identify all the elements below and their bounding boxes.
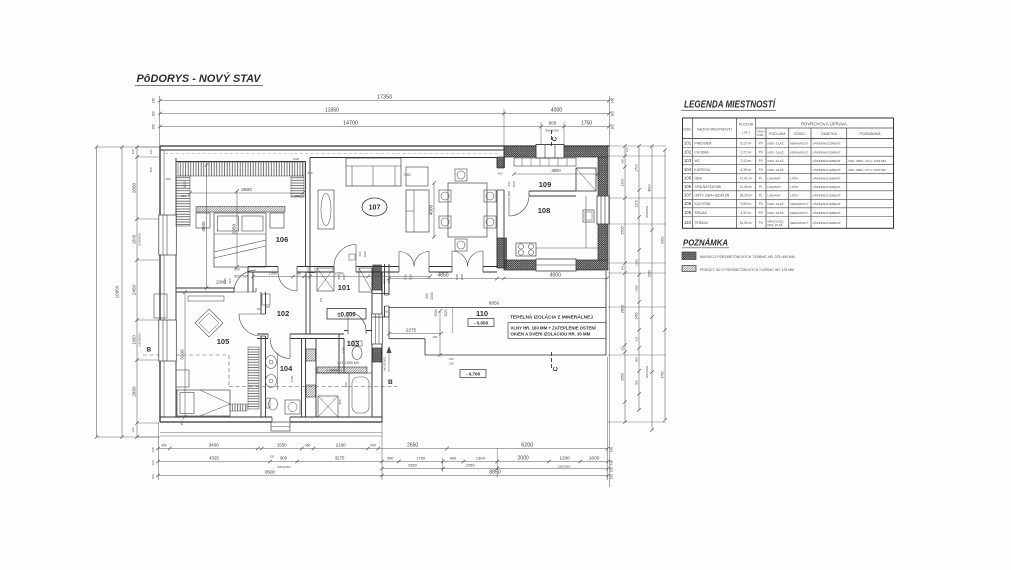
svg-text:34,00 m²: 34,00 m²: [740, 221, 753, 225]
svg-text:OBÝV. IZBA+JEDÁLEŇ: OBÝV. IZBA+JEDÁLEŇ: [695, 194, 730, 198]
svg-text:1200: 1200: [559, 456, 570, 461]
svg-text:300: 300: [498, 172, 503, 176]
svg-text:POZNÁMKA: POZNÁMKA: [683, 238, 728, 248]
svg-text:KERAMICKÝ: KERAMICKÝ: [790, 221, 808, 225]
svg-text:KER. OBKL. DO V. 1250 MM: KER. OBKL. DO V. 1250 MM: [849, 159, 887, 163]
svg-text:KER. DLAŽ.: KER. DLAŽ.: [768, 141, 785, 146]
svg-text:WC: WC: [695, 159, 701, 163]
svg-text:17350: 17350: [377, 95, 392, 101]
svg-text:450: 450: [161, 444, 167, 448]
svg-text:3275: 3275: [335, 456, 345, 461]
svg-text:150: 150: [270, 455, 275, 459]
svg-text:1600: 1600: [589, 456, 600, 462]
svg-text:KERAMICKÝ: KERAMICKÝ: [790, 202, 808, 206]
svg-text:160: 160: [610, 474, 614, 480]
svg-text:2350: 2350: [408, 463, 418, 468]
svg-text:1950: 1950: [620, 373, 624, 381]
svg-text:2500: 2500: [620, 226, 624, 234]
svg-text:- 0,700: - 0,700: [466, 372, 481, 377]
svg-text:10950: 10950: [114, 285, 119, 298]
svg-text:6350: 6350: [660, 236, 664, 244]
svg-text:VÁPENNOCEMENT.: VÁPENNOCEMENT.: [813, 142, 842, 146]
svg-text:450: 450: [149, 167, 153, 172]
svg-text:PôDORYS - NOVÝ STAV: PôDORYS - NOVÝ STAV: [137, 72, 262, 85]
svg-text:105: 105: [684, 176, 692, 181]
svg-text:IZBA: IZBA: [695, 177, 703, 181]
svg-text:160: 160: [151, 474, 155, 479]
svg-text:PODL.: PODL.: [757, 134, 765, 137]
svg-text:4000: 4000: [550, 273, 561, 279]
svg-text:V.O. 1500 MV: V.O. 1500 MV: [337, 361, 360, 365]
svg-text:13350: 13350: [325, 108, 339, 114]
svg-text:1200: 1200: [404, 273, 408, 280]
svg-text:500: 500: [234, 268, 240, 272]
svg-text:900: 900: [280, 456, 288, 461]
svg-text:1970: 1970: [512, 180, 516, 187]
svg-text:600: 600: [507, 181, 511, 186]
svg-text:1200: 1200: [620, 179, 624, 187]
svg-text:( m² ): ( m² ): [742, 131, 750, 135]
svg-text:KER. OBKL. DO V. 2200 MM: KER. OBKL. DO V. 2200 MM: [849, 168, 887, 172]
svg-text:950: 950: [338, 399, 342, 404]
svg-text:2650: 2650: [407, 443, 418, 449]
svg-text:2200: 2200: [430, 292, 434, 299]
svg-text:/900/1350/: /900/1350/: [645, 366, 649, 379]
svg-text:KÚPEĽŇA: KÚPEĽŇA: [695, 168, 711, 172]
svg-text:450: 450: [296, 272, 301, 276]
svg-text:VÁPENNOCEMENT.: VÁPENNOCEMENT.: [813, 177, 842, 181]
svg-text:3150: 3150: [290, 375, 294, 382]
svg-text:/900/1350/: /900/1350/: [545, 129, 559, 133]
svg-text:KERAMICKÝ: KERAMICKÝ: [790, 142, 808, 146]
svg-text:2200: 2200: [409, 273, 413, 280]
svg-text:POZNÁMKA: POZNÁMKA: [859, 132, 881, 136]
svg-text:900: 900: [425, 293, 429, 299]
svg-text:PLOCHA: PLOCHA: [739, 123, 754, 127]
svg-text:2200: 2200: [460, 273, 464, 280]
svg-text:±0,000: ±0,000: [337, 312, 356, 318]
svg-text:4000: 4000: [428, 204, 433, 215]
svg-text:3500: 3500: [241, 187, 252, 193]
svg-text:8500: 8500: [265, 470, 275, 475]
svg-text:/1350/900/: /1350/900/: [645, 206, 649, 219]
svg-text:2200: 2200: [330, 369, 338, 373]
svg-text:4850: 4850: [437, 273, 448, 279]
svg-text:ŠPAJZA: ŠPAJZA: [695, 210, 708, 215]
svg-text:PL: PL: [759, 194, 763, 198]
svg-text:2000: 2000: [518, 456, 529, 462]
svg-text:KERAMICKÝ: KERAMICKÝ: [790, 211, 808, 215]
svg-text:7050: 7050: [403, 173, 410, 177]
svg-text:160: 160: [152, 111, 156, 117]
svg-text:- 0,050: - 0,050: [474, 321, 489, 326]
svg-text:160: 160: [611, 98, 615, 104]
svg-text:300: 300: [620, 346, 624, 351]
svg-text:1750: 1750: [581, 121, 592, 127]
svg-text:2800: 2800: [620, 305, 624, 313]
svg-text:104: 104: [280, 364, 293, 373]
svg-text:MURIVO Z PÓROBETÓNOVÝCH TVÁRNI: MURIVO Z PÓROBETÓNOVÝCH TVÁRNIC HR. 375 …: [700, 254, 795, 259]
svg-text:103: 103: [684, 158, 692, 163]
svg-text:300: 300: [257, 307, 262, 311]
svg-text:150: 150: [266, 305, 271, 309]
svg-text:8850: 8850: [489, 470, 501, 476]
svg-text:OMIETKA: OMIETKA: [821, 132, 838, 136]
svg-text:1060: 1060: [634, 259, 638, 266]
svg-text:3225: 3225: [444, 309, 448, 316]
svg-text:VÁPENNOCEMENT.: VÁPENNOCEMENT.: [813, 221, 842, 225]
svg-text:2450: 2450: [131, 284, 136, 295]
svg-text:KER. DLAŽ.: KER. DLAŽ.: [768, 210, 785, 215]
svg-text:LAMINÁT: LAMINÁT: [768, 177, 782, 181]
svg-text:400: 400: [370, 444, 376, 448]
svg-text:TEPELNÁ IZOLÁCIA Z MINERÁLNEJ: TEPELNÁ IZOLÁCIA Z MINERÁLNEJ: [510, 314, 593, 321]
svg-text:2350: 2350: [647, 270, 651, 278]
svg-text:5,12 m²: 5,12 m²: [740, 142, 751, 146]
svg-text:VÁPENNOCEMENT.: VÁPENNOCEMENT.: [813, 211, 842, 215]
svg-text:110: 110: [684, 220, 692, 225]
svg-text:3500: 3500: [434, 309, 438, 316]
svg-text:NÁZOV MIESTNOSTI: NÁZOV MIESTNOSTI: [697, 128, 731, 132]
svg-text:1970: 1970: [342, 273, 346, 280]
svg-text:106: 106: [684, 184, 692, 189]
svg-text:3600: 3600: [551, 168, 561, 173]
svg-text:1200: 1200: [342, 346, 346, 353]
svg-text:102: 102: [684, 149, 692, 154]
svg-text:OZN.: OZN.: [683, 128, 691, 132]
svg-text:4325: 4325: [209, 456, 219, 461]
svg-text:VÁPENNOCEMENT.: VÁPENNOCEMENT.: [813, 150, 842, 154]
svg-text:TERASA: TERASA: [695, 221, 709, 225]
svg-text:PREDSIEŇ: PREDSIEŇ: [695, 142, 712, 146]
svg-text:160: 160: [152, 124, 156, 130]
svg-text:300: 300: [384, 310, 389, 314]
svg-text:800: 800: [181, 194, 186, 198]
svg-text:160: 160: [151, 460, 155, 465]
svg-text:LAMINÁT: LAMINÁT: [768, 194, 782, 198]
svg-text:SOKEL: SOKEL: [794, 132, 805, 136]
svg-text:21,05 m²: 21,05 m²: [740, 185, 753, 189]
svg-text:4x163/300: 4x163/300: [383, 357, 387, 371]
svg-text:LEGENDA MIESTNOSTÍ: LEGENDA MIESTNOSTÍ: [684, 100, 777, 111]
svg-text:1550: 1550: [277, 443, 287, 448]
svg-text:/1350/900/: /1350/900/: [138, 233, 142, 246]
svg-text:/1350/900/: /1350/900/: [138, 333, 142, 346]
svg-text:101: 101: [684, 141, 692, 146]
svg-text:2275: 2275: [406, 328, 417, 333]
svg-text:107: 107: [369, 205, 381, 212]
svg-text:B: B: [388, 379, 393, 386]
svg-text:800: 800: [228, 278, 232, 283]
svg-text:102: 102: [277, 309, 290, 318]
svg-text:160: 160: [625, 147, 629, 152]
svg-text:1300: 1300: [476, 456, 486, 461]
svg-text:1600: 1600: [183, 181, 187, 189]
svg-text:6200: 6200: [521, 443, 533, 449]
svg-text:450: 450: [307, 171, 312, 175]
svg-text:2950: 2950: [231, 223, 236, 234]
svg-text:160: 160: [611, 111, 615, 117]
svg-text:450: 450: [165, 177, 170, 181]
svg-text:400: 400: [620, 159, 624, 164]
svg-text:160: 160: [131, 427, 135, 432]
svg-text:160: 160: [151, 447, 155, 452]
svg-text:101: 101: [338, 283, 351, 292]
svg-text:800: 800: [337, 274, 341, 279]
svg-text:104: 104: [684, 167, 692, 172]
svg-text:1060: 1060: [634, 285, 638, 292]
svg-text:160: 160: [611, 124, 615, 130]
svg-text:1200: 1200: [455, 273, 459, 280]
svg-text:LAMINÁT: LAMINÁT: [768, 185, 782, 189]
svg-text:105: 105: [217, 337, 230, 346]
svg-text:PRIEČKY SÚ Z PÓROBETÓNOVÝCH TV: PRIEČKY SÚ Z PÓROBETÓNOVÝCH TVÁRNIC HR. …: [700, 267, 794, 272]
svg-text:17,01 m²: 17,01 m²: [740, 177, 753, 181]
svg-text:150: 150: [433, 335, 438, 339]
svg-text:2,43 m²: 2,43 m²: [740, 159, 751, 163]
svg-text:2650: 2650: [131, 182, 136, 193]
svg-text:6,35 m²: 6,35 m²: [740, 168, 751, 172]
svg-text:1200: 1200: [634, 200, 638, 208]
svg-text:5000: 5000: [179, 349, 184, 360]
svg-text:900: 900: [634, 380, 638, 385]
svg-text:POVRCHOVÁ ÚPRAVA: POVRCHOVÁ ÚPRAVA: [801, 122, 847, 127]
svg-text:4600: 4600: [647, 184, 651, 192]
svg-text:VÁPENNOCEMENT.: VÁPENNOCEMENT.: [813, 185, 842, 189]
svg-text:450: 450: [305, 444, 311, 448]
svg-text:650: 650: [387, 457, 393, 461]
svg-text:1600: 1600: [131, 335, 136, 345]
svg-text:OKIEN A DVERÍ IZOLÁCIOU HR. 30: OKIEN A DVERÍ IZOLÁCIOU HR. 30 MM: [511, 332, 591, 337]
svg-text:9,55 m²: 9,55 m²: [740, 202, 751, 206]
svg-text:28,25 m²: 28,25 m²: [740, 194, 753, 198]
svg-text:1970: 1970: [363, 250, 367, 257]
svg-text:160: 160: [152, 98, 156, 104]
svg-text:/900/1350/: /900/1350/: [277, 465, 290, 469]
svg-text:LIŠTA: LIŠTA: [790, 193, 799, 198]
svg-text:160: 160: [610, 467, 614, 473]
svg-text:150: 150: [449, 357, 454, 361]
svg-text:PL: PL: [759, 185, 763, 189]
svg-text:800/700/: 800/700/: [234, 275, 247, 279]
svg-text:CHODBA: CHODBA: [695, 150, 710, 154]
svg-text:450: 450: [180, 420, 184, 425]
svg-text:SPÁLŇA+ŠATNÍK: SPÁLŇA+ŠATNÍK: [695, 184, 722, 189]
svg-text:1700: 1700: [660, 371, 664, 378]
svg-text:160: 160: [131, 149, 135, 154]
svg-text:14700: 14700: [343, 121, 358, 127]
svg-text:110: 110: [476, 309, 488, 318]
svg-text:PL: PL: [759, 177, 763, 181]
svg-text:VÁPENNOCEMENT.: VÁPENNOCEMENT.: [813, 159, 842, 163]
svg-text:1350/900/: 1350/900/: [557, 465, 571, 469]
svg-text:2650: 2650: [131, 386, 136, 397]
svg-text:1700: 1700: [634, 164, 638, 172]
svg-text:C: C: [552, 136, 559, 141]
svg-text:3400: 3400: [209, 443, 220, 448]
svg-text:8850: 8850: [489, 301, 500, 307]
svg-text:KER. DLAŽ.: KER. DLAŽ.: [768, 149, 785, 154]
svg-text:KERAMICKÝ: KERAMICKÝ: [790, 150, 808, 154]
svg-text:150: 150: [449, 362, 454, 366]
svg-text:1550: 1550: [269, 272, 277, 276]
svg-text:109: 109: [684, 210, 692, 215]
svg-text:900: 900: [634, 357, 638, 362]
svg-text:LIŠTA: LIŠTA: [790, 184, 799, 189]
svg-text:1500: 1500: [293, 157, 299, 161]
svg-text:4000: 4000: [551, 108, 563, 114]
svg-text:4900: 4900: [201, 221, 206, 232]
svg-text:KER. DLAŽ.: KER. DLAŽ.: [768, 158, 785, 163]
svg-text:900: 900: [344, 382, 348, 387]
svg-text:108: 108: [538, 206, 551, 215]
svg-text:B: B: [147, 347, 152, 354]
svg-text:160: 160: [149, 149, 153, 154]
svg-text:KUCHYŇA: KUCHYŇA: [695, 202, 712, 206]
svg-text:VÁPENNOCEMENT.: VÁPENNOCEMENT.: [813, 202, 842, 206]
svg-text:600: 600: [358, 251, 362, 256]
svg-text:108: 108: [684, 201, 692, 206]
svg-text:800: 800: [295, 194, 300, 198]
svg-text:4,32 m²: 4,32 m²: [740, 211, 751, 215]
svg-text:160: 160: [610, 460, 614, 466]
svg-text:LIŠTA: LIŠTA: [790, 176, 799, 181]
svg-text:VÁPENNOCEMENT.: VÁPENNOCEMENT.: [813, 194, 842, 198]
svg-text:VÁPENNOCEMENT.: VÁPENNOCEMENT.: [813, 168, 842, 172]
svg-text:2100: 2100: [336, 443, 346, 448]
svg-text:103: 103: [347, 339, 360, 348]
svg-text:KER. DLAŽ.: KER. DLAŽ.: [768, 167, 785, 172]
svg-text:150: 150: [319, 297, 323, 302]
svg-text:PODLAHA: PODLAHA: [769, 132, 786, 136]
svg-text:KER. DLAŽ.: KER. DLAŽ.: [768, 201, 785, 206]
svg-text:800: 800: [450, 457, 456, 461]
svg-text:2,71 m²: 2,71 m²: [740, 150, 751, 154]
svg-text:C: C: [553, 366, 560, 371]
svg-text:1450: 1450: [634, 312, 638, 319]
svg-text:525: 525: [634, 336, 638, 341]
svg-text:160: 160: [610, 447, 614, 453]
svg-text:109: 109: [539, 180, 552, 189]
svg-text:900: 900: [549, 121, 557, 126]
svg-text:106: 106: [276, 235, 289, 244]
svg-text:2250: 2250: [466, 463, 476, 468]
svg-text:400: 400: [620, 265, 624, 270]
svg-text:1600: 1600: [131, 234, 136, 244]
svg-text:VLNY HR. 160 MM + ZATEPLENIE O: VLNY HR. 160 MM + ZATEPLENIE OSTENÍ: [511, 326, 597, 331]
svg-text:1970: 1970: [223, 277, 227, 284]
svg-text:KER. DLAŽ.: KER. DLAŽ.: [768, 222, 784, 227]
svg-text:107: 107: [684, 193, 692, 198]
svg-text:1700: 1700: [416, 456, 426, 461]
